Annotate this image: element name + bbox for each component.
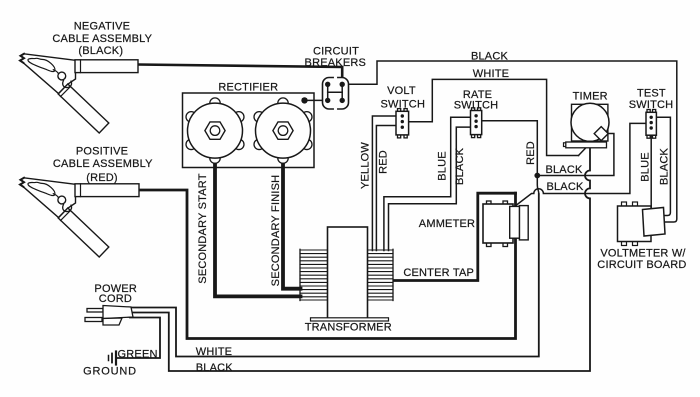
svg-text:BREAKERS: BREAKERS [305, 57, 367, 69]
timer cam tab [594, 127, 608, 141]
svg-text:SWITCH: SWITCH [381, 98, 426, 110]
transformer base [311, 318, 389, 321]
volt switch body [398, 109, 408, 138]
svg-text:CIRCUIT BOARD: CIRCUIT BOARD [597, 259, 686, 271]
svg-text:CIRCUIT: CIRCUIT [313, 46, 359, 58]
wire center tap to ammeter shunt (heavy) [395, 193, 516, 280]
positive cable clamp [20, 178, 109, 257]
wire red: rate switch to junction [482, 121, 539, 194]
svg-text:VOLTMETER W/: VOLTMETER W/ [600, 247, 686, 259]
rectifier box [183, 93, 315, 168]
wire black jumper 1: junction to timer contact [537, 134, 614, 176]
svg-text:NEGATIVE: NEGATIVE [74, 21, 130, 33]
svg-text:BLACK: BLACK [545, 164, 583, 176]
wire secondary finish (heavy) [283, 131, 301, 289]
circuit breakers contacts [328, 84, 343, 100]
circuit breakers body [323, 78, 349, 110]
rate switch body [472, 108, 481, 138]
voltmeter circuit board tilted [643, 208, 666, 237]
svg-text:WHITE: WHITE [196, 346, 232, 358]
svg-text:CENTER TAP: CENTER TAP [403, 267, 474, 279]
wire red: volt switch to transformer [376, 126, 396, 251]
svg-text:BLACK: BLACK [196, 362, 234, 374]
svg-text:BLUE: BLUE [437, 151, 449, 181]
node rectifier-breaker junction [301, 97, 307, 103]
timer body square [572, 104, 608, 141]
wire negative cable to circuit breakers (heavy) [138, 65, 342, 83]
svg-text:BLUE: BLUE [640, 152, 652, 182]
svg-text:CABLE ASSEMBLY: CABLE ASSEMBLY [52, 33, 152, 45]
wire white power: plug to junction riser [131, 194, 539, 357]
transformer core [328, 227, 368, 318]
rectifier plate 2 [254, 98, 312, 163]
test switch body [647, 110, 656, 139]
wire black jumper 2: ammeter shunt to test switch (hop over riser) [516, 123, 646, 205]
wire white top bus [409, 79, 579, 155]
timer dial circle [571, 103, 609, 141]
wire black power: plug to timer base with hops [131, 148, 590, 371]
svg-text:SWITCH: SWITCH [454, 100, 499, 112]
ammeter body [487, 201, 508, 247]
ammeter right board [519, 206, 528, 240]
wire blue: test switch to voltmeter [650, 135, 652, 208]
positive cable ferrule [75, 184, 139, 197]
wire white bus diagonal to timer base [579, 148, 586, 155]
node junction red/white/black [534, 173, 540, 179]
svg-text:BLACK: BLACK [658, 148, 670, 186]
svg-text:SECONDARY FINISH: SECONDARY FINISH [270, 175, 282, 287]
wire breaker to rectifier junction [305, 99, 328, 101]
ammeter shunt plate [510, 206, 520, 238]
svg-text:WHITE: WHITE [473, 68, 509, 80]
svg-text:SWITCH: SWITCH [629, 99, 674, 111]
svg-text:GROUND: GROUND [83, 365, 137, 377]
wire positive cable to ammeter (heavy) [139, 190, 516, 339]
power cord plug [85, 306, 133, 326]
svg-text:(BLACK): (BLACK) [78, 45, 123, 57]
svg-text:RED: RED [525, 141, 537, 165]
transformer left winding [300, 249, 328, 300]
rectifier plate 1 [186, 98, 244, 163]
voltmeter body [622, 202, 638, 246]
wire yellow: volt switch to transformer [372, 116, 396, 251]
svg-text:BLACK: BLACK [454, 147, 466, 185]
svg-text:AMMETER: AMMETER [419, 218, 475, 230]
negative cable ferrule [75, 60, 138, 73]
wire black: rate switch to transformer [389, 127, 471, 250]
timer base [564, 143, 572, 147]
svg-text:RED: RED [378, 150, 390, 174]
svg-text:CORD: CORD [99, 293, 132, 305]
svg-text:BLACK: BLACK [471, 51, 509, 63]
svg-text:VOLT: VOLT [387, 85, 416, 97]
wire test switch to voltmeter right (top) [656, 117, 670, 215]
transformer right winding [368, 249, 394, 300]
svg-text:POSITIVE: POSITIVE [76, 146, 128, 158]
wire breaker to black top bus, down right side to voltmeter [348, 61, 677, 222]
svg-text:TEST: TEST [637, 88, 666, 100]
svg-text:GREEN: GREEN [118, 348, 158, 360]
wire secondary start (heavy) [215, 131, 301, 296]
wire blue: rate switch to transformer [384, 117, 471, 250]
svg-text:(RED): (RED) [86, 172, 118, 184]
svg-text:SECONDARY START: SECONDARY START [197, 173, 209, 283]
svg-text:TIMER: TIMER [573, 91, 608, 103]
negative cable clamp [20, 54, 109, 133]
svg-text:BLACK: BLACK [546, 181, 584, 193]
ground symbol [109, 352, 117, 365]
svg-text:RECTIFIER: RECTIFIER [218, 81, 278, 93]
svg-text:YELLOW: YELLOW [360, 142, 372, 189]
wire green power: plug to ground [118, 318, 161, 359]
svg-text:CABLE ASSEMBLY: CABLE ASSEMBLY [53, 158, 153, 170]
svg-text:TRANSFORMER: TRANSFORMER [305, 322, 392, 334]
